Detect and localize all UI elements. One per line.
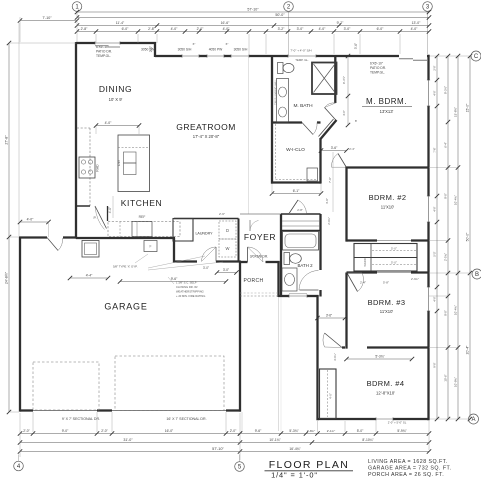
svg-text:M. BDRM.: M. BDRM. [366, 97, 407, 106]
door: bdrm2 door wedge in hall corner [338, 154, 347, 168]
range (RAD) [79, 157, 95, 178]
svg-text:6": 6" [193, 42, 196, 46]
wall: garage north wall with service door [19, 236, 47, 238]
svg-text:12'-8"X10': 12'-8"X10' [376, 391, 395, 396]
wall: kitchen/garage wall [76, 237, 175, 239]
svg-text:11'-4": 11'-4" [116, 21, 125, 25]
wall: garage south wall with sectional door openings [20, 409, 33, 411]
svg-text:W-I-CLO: W-I-CLO [286, 147, 305, 153]
kitchen west counter dashed edge [89, 128, 91, 206]
svg-text:TEMP. GL.: TEMP. GL. [295, 58, 309, 62]
bath2 toilet [284, 253, 290, 265]
window 3050 S/H (greatroom 2) [231, 55, 249, 57]
svg-text:LIVING AREA = 1628 SQ.FT.: LIVING AREA = 1628 SQ.FT. [368, 459, 448, 465]
svg-text:6'-4": 6'-4" [444, 142, 448, 148]
svg-text:4'-0": 4'-0" [433, 206, 437, 211]
dim 3'-6 hall bottom [318, 317, 346, 319]
foyer NE opening arc [249, 220, 251, 231]
svg-text:3'-0": 3'-0" [223, 268, 229, 272]
dim 4'-0 garage offset [20, 221, 49, 223]
wall: bdrm3/bdrm4 wall y=347.5 with door opening [342, 346, 345, 348]
svg-text:3050 S/H: 3050 S/H [178, 48, 192, 52]
dim line x348 beside shower [347, 56, 349, 125]
wall: w-i-clo east wall [319, 138, 321, 184]
svg-text:2'-4": 2'-4" [360, 281, 366, 285]
wall: bath2/linen west wall (foyer east) [280, 214, 282, 297]
left dim 27'-8 [8, 43, 10, 412]
dim 3'-6 hall top [321, 150, 347, 152]
window bdrm2 east [428, 196, 430, 222]
window m.bdrm east [428, 80, 430, 106]
svg-text:3'-0": 3'-0" [297, 27, 305, 31]
dim row: 57'-10 overall (top) [77, 11, 429, 13]
wall: bdrm2 south wall with closet opening [347, 239, 378, 241]
svg-text:9'-2": 9'-2" [337, 21, 345, 25]
svg-text:KITCHEN: KITCHEN [121, 198, 163, 208]
garage door dashed outline 16ft [115, 356, 224, 411]
wall: bdrm3 west wall (hall east) [345, 273, 347, 349]
svg-text:13'X13': 13'X13' [380, 109, 394, 114]
svg-text:WEATHERSTRIPPING: WEATHERSTRIPPING [176, 290, 204, 294]
svg-text:11'X10': 11'X10' [381, 205, 395, 210]
right dim x458 [457, 56, 459, 419]
wall: m.bath & w-i-clo west wall [271, 55, 273, 184]
svg-text:2'-1¾": 2'-1¾" [327, 429, 335, 433]
svg-text:3'-6": 3'-6" [326, 314, 332, 318]
svg-text:CLOSING DR. W/: CLOSING DR. W/ [176, 285, 198, 289]
bdrm4 closet [320, 369, 337, 419]
door: bdrm3 door wedge [347, 273, 358, 292]
svg-text:10'-6": 10'-6" [444, 374, 448, 381]
window bath2 front [289, 295, 307, 297]
svg-text:9'-0": 9'-0" [444, 310, 448, 316]
laundry closet box [173, 219, 193, 242]
m.bath double vanity [277, 79, 289, 123]
door: w-i-clo door leaf + swing [302, 123, 313, 135]
svg-text:+ 20 MIN. FIRE RATING: + 20 MIN. FIRE RATING [176, 294, 205, 298]
washer/dryer dashed boxes [219, 221, 236, 239]
dim 5'-3.75 bdrm4 [347, 358, 413, 360]
wall: m.bath south / w-i-clo north wall with door opening [271, 121, 302, 123]
svg-text:5'-9¾": 5'-9¾" [397, 429, 407, 433]
svg-text:TEMP.GL.: TEMP.GL. [96, 54, 111, 58]
garage door 9ft threshold [33, 410, 97, 412]
svg-text:2'-0": 2'-0" [101, 429, 108, 433]
svg-text:4'-0": 4'-0" [325, 198, 329, 204]
svg-text:4'-0": 4'-0" [27, 218, 35, 222]
garage door dashed outline 9ft [33, 362, 99, 410]
door: bath2 door swing [300, 289, 319, 291]
grid bubble 4 [14, 461, 24, 471]
grid bubble C [471, 51, 481, 61]
wall: w-i-clo south wall [271, 181, 321, 183]
svg-text:20'-4": 20'-4" [466, 345, 470, 354]
door: front entry leaf and swing [247, 247, 249, 262]
svg-text:3/0X6/8 DR.: 3/0X6/8 DR. [250, 255, 269, 259]
ext line right of 3rd window [248, 34, 250, 55]
wall: garage west wall [19, 237, 21, 412]
foyer/greatroom header line [240, 213, 281, 215]
svg-text:10'-9¾": 10'-9¾" [454, 377, 458, 387]
svg-text:16'-6": 16'-6" [221, 21, 230, 25]
svg-text:2'-6": 2'-6" [219, 212, 225, 216]
svg-text:4'-0": 4'-0" [108, 207, 112, 213]
right dim outer 15'-0 / 50'-0 [469, 56, 471, 419]
svg-text:6'-1": 6'-1" [293, 189, 300, 193]
grid bubble 2 [284, 2, 294, 12]
svg-text:9'-0": 9'-0" [433, 362, 437, 367]
svg-text:2X6 PLUMBING WALL: 2X6 PLUMBING WALL [275, 79, 278, 105]
right dim x437 cluster [436, 56, 438, 419]
svg-text:REF: REF [139, 215, 146, 219]
bath2 vanity sink [282, 268, 297, 291]
svg-text:9'-6": 9'-6" [255, 429, 262, 433]
svg-text:PATIO DR.: PATIO DR. [96, 49, 112, 53]
svg-text:4'-0": 4'-0" [319, 27, 327, 31]
svg-text:FLOOR PLAN: FLOOR PLAN [269, 459, 350, 471]
grid bubble A [469, 414, 479, 424]
svg-text:C: C [474, 54, 479, 60]
svg-text:B: B [475, 272, 479, 278]
left extension lines [10, 42, 76, 44]
m.bath shower with X [312, 63, 337, 95]
svg-text:50'-0": 50'-0" [466, 232, 470, 241]
dim 3'-0 porch offset [217, 272, 237, 274]
svg-text:9' X 7' SECTIONAL DR.: 9' X 7' SECTIONAL DR. [62, 417, 100, 421]
svg-text:GARAGE AREA = 732 SQ. FT.: GARAGE AREA = 732 SQ. FT. [368, 466, 452, 472]
dim 6'-1 wiclo [272, 193, 321, 195]
patio door m.bdrm [399, 58, 413, 60]
svg-text:2'-8": 2'-8" [297, 208, 303, 212]
grid bubble 3 [423, 2, 433, 12]
svg-text:7'-10": 7'-10" [42, 16, 52, 20]
svg-text:PORCH: PORCH [243, 278, 263, 284]
wall: laundry south wall with door to garage [174, 260, 197, 262]
svg-text:4'-4": 4'-4" [86, 274, 93, 278]
svg-text:1/4" = 1'-0": 1/4" = 1'-0" [271, 471, 318, 480]
window 7'-0 + 4'-0 S.H. (m.bath) [288, 55, 316, 57]
svg-text:5'-3¾": 5'-3¾" [289, 429, 299, 433]
svg-text:9'-3½": 9'-3½" [444, 86, 448, 94]
svg-text:5'-0": 5'-0" [391, 247, 397, 251]
closet block bdrm2/bdrm3 [354, 244, 417, 272]
svg-text:3'-0": 3'-0" [344, 27, 352, 31]
m.bath toilet [278, 63, 284, 74]
svg-text:4050 PW: 4050 PW [209, 48, 223, 52]
svg-text:4'-0": 4'-0" [433, 90, 437, 95]
svg-text:31'-0": 31'-0" [123, 438, 133, 442]
dim row 57'-10 bottom [20, 451, 429, 453]
wall: main north wall y=56 with window openings [155, 55, 182, 57]
svg-text:8'-10¼": 8'-10¼" [362, 438, 374, 442]
svg-text:3050 S/H: 3050 S/H [234, 48, 248, 52]
svg-text:10'-1¾": 10'-1¾" [269, 438, 281, 442]
svg-text:BDRM. #4: BDRM. #4 [367, 379, 405, 388]
dim 4'-4 garage [70, 277, 108, 279]
svg-text:DINING: DINING [99, 84, 132, 94]
svg-text:7'-0" + 4'-0" S/H: 7'-0" + 4'-0" S/H [290, 49, 311, 53]
svg-text:BDRM. #3: BDRM. #3 [368, 298, 406, 307]
svg-text:9'-0": 9'-0" [444, 193, 448, 199]
svg-text:9'-3½": 9'-3½" [342, 76, 346, 84]
wall: jog at grid line down to main top wall [154, 42, 156, 57]
svg-text:WARD.: WARD. [363, 257, 367, 266]
wall: house west wall (dining/kitchen) [75, 42, 77, 239]
svg-text:2'-0": 2'-0" [149, 46, 153, 52]
svg-text:24'-8½": 24'-8½" [5, 271, 9, 284]
svg-text:5'-0": 5'-0" [357, 429, 364, 433]
wall: linen closet top wall [281, 213, 321, 215]
svg-text:3'-2": 3'-2" [278, 27, 286, 31]
svg-text:16' X 7' SECTIONAL DR.: 16' X 7' SECTIONAL DR. [166, 417, 206, 421]
pantry P. with angled door [76, 205, 90, 207]
svg-text:2'-4": 2'-4" [349, 147, 355, 151]
svg-text:2'-0¾": 2'-0¾" [327, 217, 331, 225]
svg-text:BDRM. #2: BDRM. #2 [369, 193, 407, 202]
svg-text:17'-4" X 20'-8": 17'-4" X 20'-8" [193, 134, 220, 139]
svg-text:LAUNDRY: LAUNDRY [195, 232, 213, 236]
svg-text:2'-8¾": 2'-8¾" [307, 429, 315, 433]
svg-text:4'-0": 4'-0" [171, 27, 179, 31]
svg-text:4'-0": 4'-0" [433, 296, 437, 301]
wall: laundry north wall [174, 218, 239, 220]
dim row bottom-right segments [240, 433, 429, 435]
svg-text:9'-0": 9'-0" [62, 429, 69, 433]
wall: m.bath east wall (shower side) down to door [334, 56, 336, 103]
svg-text:BATH 2: BATH 2 [297, 263, 313, 268]
svg-text:27'-8": 27'-8" [5, 135, 9, 145]
svg-text:FOYER: FOYER [244, 232, 276, 242]
right dim x448 cluster [447, 56, 449, 419]
wall: linen/bath2 divider [281, 230, 321, 232]
dim row bottom-left segments [20, 433, 240, 435]
svg-text:4'-0": 4'-0" [329, 393, 333, 399]
dim row2: 50'-0 [77, 17, 429, 19]
svg-text:5'-5": 5'-5" [433, 251, 437, 256]
svg-text:13'-0": 13'-0" [412, 21, 421, 25]
svg-text:GREATROOM: GREATROOM [176, 122, 236, 132]
svg-text:2'-9¾": 2'-9¾" [411, 277, 419, 281]
water heater platform [82, 241, 99, 258]
wall: hall west / bath2 east wall [319, 214, 321, 270]
door: linen closet door wedge [289, 200, 298, 214]
grid bubble 1 [72, 2, 82, 12]
svg-text:57'-10": 57'-10" [212, 447, 224, 451]
leader lines to laundry door [148, 256, 205, 268]
svg-text:6": 6" [226, 42, 229, 46]
garage door 16ft threshold [112, 410, 226, 412]
svg-text:11'X10': 11'X10' [380, 309, 394, 314]
svg-text:6'X6'-10": 6'X6'-10" [96, 45, 110, 49]
window bdrm3 east [428, 287, 430, 311]
wall: bdrm2 west wall [345, 167, 347, 242]
line x248.5 greatroom east break line [248, 57, 250, 214]
door: laundry-garage door swing [215, 247, 217, 262]
wall: dining north (top-left) with patio door opening [76, 42, 95, 44]
svg-text:3'-6": 3'-6" [331, 146, 338, 150]
svg-text:10' X 9': 10' X 9' [109, 97, 123, 102]
svg-text:2'-5¾": 2'-5¾" [444, 253, 448, 261]
wall: foyer front wall with entry door opening [240, 261, 248, 263]
svg-text:6'-0": 6'-0" [377, 27, 385, 31]
svg-text:TEMP.GL.: TEMP.GL. [370, 71, 385, 75]
wall: bdrm3 north wall with closet opening [347, 271, 378, 273]
walkway lines below porch [278, 297, 280, 431]
svg-text:P.: P. [94, 216, 97, 220]
w-i-clo shelf dashed lines [275, 124, 277, 180]
wall: m.bdrm / bdrm2 wall y=167.5 [347, 166, 430, 168]
svg-text:5'-3¾": 5'-3¾" [375, 355, 385, 359]
svg-text:2'-0": 2'-0" [197, 27, 205, 31]
svg-text:4'-0": 4'-0" [223, 27, 231, 31]
wall: garage east wall [239, 261, 241, 412]
window 3050 S/H (greatroom 1) [182, 55, 199, 57]
window bdrm4 south [376, 418, 393, 420]
left ext line x19 from top rows to garage [18, 23, 20, 236]
linen closet shelf lines [282, 220, 320, 222]
wall: laundry west jog [173, 238, 175, 263]
wall: laundry east wall (foyer side) [238, 219, 240, 263]
svg-text:16'-4¾": 16'-4¾" [289, 447, 301, 451]
grid bubble B [472, 269, 481, 279]
wall: angled corner m.bath/w-i-clo [321, 120, 337, 139]
svg-text:2'-0": 2'-0" [230, 429, 237, 433]
svg-text:A: A [471, 417, 475, 423]
grid bubble 5 [235, 462, 245, 472]
dim island 4'-0 [96, 125, 139, 127]
svg-text:6'-0": 6'-0" [122, 27, 130, 31]
svg-text:5/8" TYPE 'X' GYP.: 5/8" TYPE 'X' GYP. [113, 265, 138, 269]
svg-text:GARAGE: GARAGE [104, 302, 147, 312]
furnace box [144, 241, 157, 252]
dim row3: top segment dims [77, 31, 429, 33]
svg-text:15'-8½": 15'-8½" [454, 107, 458, 117]
svg-text:7'-0": 7'-0" [328, 177, 332, 183]
porch dashed front edge [240, 295, 279, 297]
svg-text:16'-0": 16'-0" [165, 429, 174, 433]
svg-text:F: F [150, 245, 152, 249]
wall: east wall x=428.5 with bedroom windows [427, 55, 429, 80]
svg-text:7'-6": 7'-6" [433, 147, 437, 152]
svg-text:3'-0": 3'-0" [203, 266, 209, 270]
bottom extension lines [32, 412, 34, 432]
bath2 tub [283, 232, 319, 251]
svg-text:10'-4¾": 10'-4¾" [454, 305, 458, 315]
svg-text:4'-0": 4'-0" [105, 121, 113, 125]
wall: porch east wall [277, 261, 279, 297]
svg-text:PORCH AREA = 26 SQ. FT.: PORCH AREA = 26 SQ. FT. [368, 472, 444, 478]
refrigerator [132, 222, 152, 237]
svg-text:2'-0": 2'-0" [23, 429, 30, 433]
wall: front wall at bath2 with window [279, 295, 290, 297]
svg-text:M. BATH: M. BATH [293, 103, 313, 109]
svg-text:3'-0¼": 3'-0¼" [333, 353, 337, 361]
svg-text:3'-6": 3'-6" [354, 43, 358, 49]
dim row2b: 11'-4 / 16'-6 / 9'-2 / 13'-0 [77, 25, 429, 27]
svg-text:2'-0": 2'-0" [433, 65, 437, 70]
svg-text:RAD: RAD [96, 164, 100, 172]
dim row2l: 7'-10 [20, 20, 77, 22]
svg-text:5'-8": 5'-8" [383, 281, 389, 285]
svg-text:2'-8": 2'-8" [81, 27, 89, 31]
svg-text:DW: DW [117, 159, 121, 165]
door: bdrm4 door wedge [325, 333, 343, 348]
svg-text:D: D [226, 228, 229, 233]
svg-text:5'-0": 5'-0" [391, 261, 397, 265]
svg-text:6'X6'-10": 6'X6'-10" [370, 62, 384, 66]
svg-text:2'-0" + 5'-0" SL: 2'-0" + 5'-0" SL [388, 421, 407, 425]
door: m.bdrm entry on angled wall [325, 103, 336, 108]
dim row 31'-0 and right half [20, 442, 429, 444]
extension lines top [19, 17, 21, 42]
right extension lines [430, 55, 470, 57]
kitchen south counter dashed [108, 222, 180, 237]
wall: bdrm4 west wall [316, 295, 318, 420]
dim 9'-6 garage [120, 281, 226, 283]
svg-text:50'-0": 50'-0" [275, 13, 285, 17]
door: garage service door swing [47, 238, 58, 251]
kitchen island with sink [118, 135, 150, 192]
svg-text:10'-4¾": 10'-4¾" [454, 195, 458, 205]
svg-text:1 3/8" S.C. SELF-: 1 3/8" S.C. SELF- [176, 281, 197, 285]
svg-text:W: W [226, 246, 230, 251]
wall: bdrm4 south wall with window [318, 418, 377, 420]
svg-text:4'-0": 4'-0" [411, 27, 419, 31]
window 4050 PW (greatroom) [207, 55, 224, 57]
w-i-clo dresser box [307, 168, 318, 181]
svg-text:57'-10": 57'-10" [247, 8, 259, 12]
svg-text:15'-0": 15'-0" [466, 103, 470, 112]
svg-text:PATIO DR.: PATIO DR. [370, 66, 386, 70]
svg-text:2'-8": 2'-8" [148, 27, 156, 31]
svg-text:4'-0": 4'-0" [342, 110, 346, 116]
